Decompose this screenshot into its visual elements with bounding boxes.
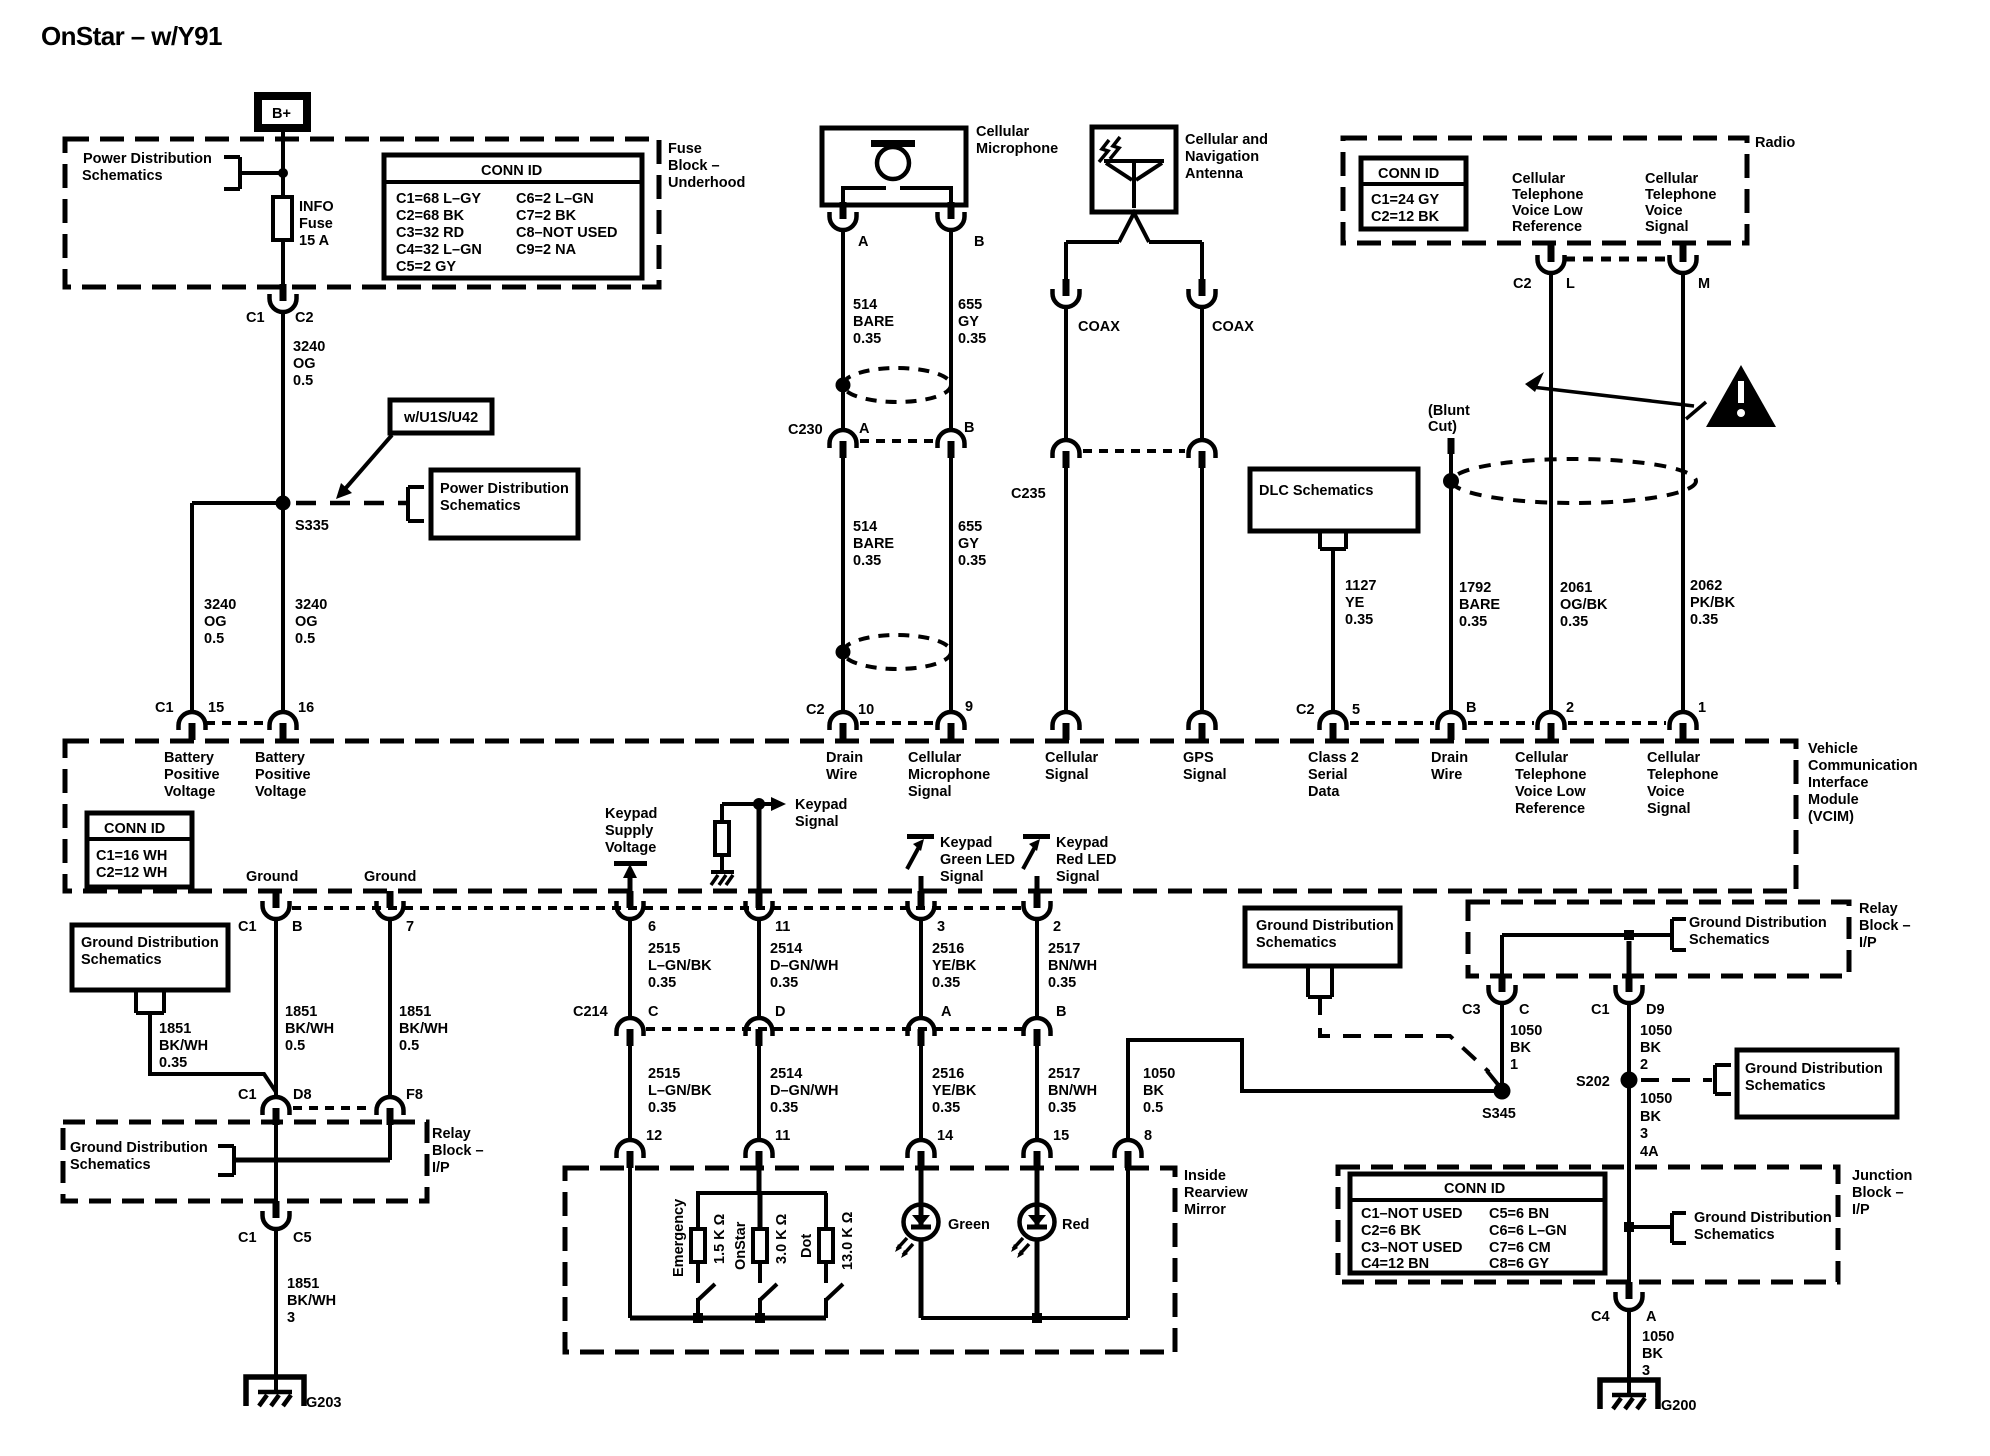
connector C214 A (908, 1004, 953, 1046)
shield ellipse (radio) (1452, 459, 1696, 503)
svg-text:Positive: Positive (255, 767, 311, 783)
svg-text:11: 11 (775, 919, 790, 935)
svg-text:Ground Distribution: Ground Distribution (1689, 915, 1827, 931)
svg-text:15: 15 (1053, 1128, 1069, 1144)
svg-text:1851: 1851 (159, 1021, 191, 1037)
svg-text:COAX: COAX (1078, 319, 1120, 335)
svg-text:Power Distribution: Power Distribution (83, 151, 212, 167)
svg-text:16: 16 (298, 700, 314, 716)
wire dashed link VCIM bottom row (292, 906, 1022, 910)
connector M (radio C2) (1670, 245, 1711, 292)
svg-text:BK/WH: BK/WH (287, 1293, 336, 1309)
connector GPS signal (VCIM) (1189, 712, 1216, 740)
connector mirror pin 11 (746, 1128, 791, 1168)
svg-text:Ground Distribution: Ground Distribution (1745, 1061, 1883, 1077)
svg-text:3: 3 (1640, 1126, 1648, 1142)
svg-text:13.0 K Ω: 13.0 K Ω (840, 1211, 856, 1270)
label 1851 BK/WH 0.5 (right) (399, 1004, 448, 1054)
label inside rearview mirror (1184, 1168, 1248, 1218)
connector pin 6 (VCIM bottom) (617, 891, 657, 935)
svg-text:Reference: Reference (1512, 219, 1582, 235)
svg-text:655: 655 (958, 519, 982, 535)
switch dot (826, 1284, 843, 1318)
label 1050 BK 3 4A (1640, 1091, 1672, 1160)
note ground distribution schematics (junction block) (1629, 1210, 1832, 1243)
svg-text:C214: C214 (573, 1004, 608, 1020)
svg-text:(Blunt: (Blunt (1428, 403, 1470, 419)
svg-text:1050: 1050 (1143, 1066, 1175, 1082)
svg-text:Red LED: Red LED (1056, 852, 1116, 868)
fuse block underhood box (65, 139, 659, 287)
svg-text:0.35: 0.35 (770, 975, 798, 991)
svg-text:C3: C3 (1462, 1002, 1481, 1018)
resistor dot 13.0 K (819, 1193, 833, 1283)
svg-text:C2: C2 (806, 702, 825, 718)
svg-text:B: B (974, 234, 984, 250)
svg-text:0.35: 0.35 (958, 553, 986, 569)
ground G203 (246, 1377, 341, 1411)
svg-text:3: 3 (937, 919, 945, 935)
svg-text:1851: 1851 (399, 1004, 431, 1020)
wire 655 GY upper (949, 230, 953, 430)
connector C214 C (573, 1004, 659, 1046)
label 1792 BARE 0.35 (1459, 580, 1500, 630)
connector pin 11 (VCIM bottom) (746, 891, 791, 935)
svg-text:Supply: Supply (605, 823, 653, 839)
svg-text:12: 12 (646, 1128, 662, 1144)
wire dashed link C230 (860, 439, 934, 443)
node relay bus junction (1624, 930, 1634, 940)
wire antenna V split (1066, 213, 1202, 242)
label 2517 BN/WH 0.35 (upper) (1048, 941, 1097, 991)
svg-text:C: C (648, 1004, 659, 1020)
svg-text:Signal: Signal (940, 869, 984, 885)
svg-text:2516: 2516 (932, 941, 964, 957)
svg-text:C1=24 GY: C1=24 GY (1371, 192, 1439, 208)
svg-text:0.35: 0.35 (853, 331, 881, 347)
svg-text:Signal: Signal (1183, 767, 1227, 783)
svg-text:0.5: 0.5 (1143, 1100, 1163, 1116)
label relay block I/P (left) (432, 1126, 484, 1176)
connector cellular signal (VCIM) (1053, 712, 1080, 740)
svg-text:Ground Distribution: Ground Distribution (1694, 1210, 1832, 1226)
svg-text:Microphone: Microphone (908, 767, 990, 783)
svg-text:C2=12 BK: C2=12 BK (1371, 209, 1440, 225)
svg-text:Schematics: Schematics (1694, 1227, 1775, 1243)
svg-text:CONN ID: CONN ID (1444, 1181, 1505, 1197)
svg-text:Voltage: Voltage (255, 784, 306, 800)
wire red LED to C214 (1035, 919, 1039, 1018)
svg-text:YE/BK: YE/BK (932, 1083, 977, 1099)
svg-text:0.35: 0.35 (1690, 612, 1718, 628)
svg-text:BN/WH: BN/WH (1048, 958, 1097, 974)
svg-text:0.35: 0.35 (958, 331, 986, 347)
node S345 splice (1482, 1083, 1516, 1123)
svg-text:C5=2 GY: C5=2 GY (396, 259, 456, 275)
svg-text:INFO: INFO (299, 199, 334, 215)
svg-text:Block –: Block – (432, 1143, 484, 1159)
wire dashed link C214 row (646, 1027, 1022, 1031)
svg-text:Microphone: Microphone (976, 141, 1058, 157)
radio box (1343, 138, 1747, 243)
svg-text:BARE: BARE (1459, 597, 1500, 613)
svg-text:6: 6 (648, 919, 656, 935)
node junction block tie (1624, 1222, 1634, 1232)
connector pin 1 (VCIM) (1670, 700, 1707, 740)
label 2514 D-GN/WH 0.35 (upper) (770, 941, 838, 991)
ground distribution schematics box (left) (72, 925, 228, 990)
svg-text:C5=6 BN: C5=6 BN (1489, 1206, 1549, 1222)
svg-text:Schematics: Schematics (1689, 932, 1770, 948)
svg-text:0.35: 0.35 (1459, 614, 1487, 630)
connector L (radio C2) (1513, 245, 1575, 292)
connector pin 7 (VCIM bottom) (377, 891, 415, 935)
svg-text:D: D (775, 1004, 785, 1020)
keypad signal net (722, 797, 786, 891)
svg-text:2517: 2517 (1048, 941, 1080, 957)
svg-text:Keypad: Keypad (605, 806, 657, 822)
connector C1 D9 (relay right) (1591, 975, 1665, 1018)
svg-text:BK: BK (1143, 1083, 1164, 1099)
wire coax right upper (1200, 242, 1204, 280)
svg-text:L–GN/BK: L–GN/BK (648, 958, 712, 974)
wire GPS signal to VCIM (1200, 468, 1204, 712)
svg-text:C1: C1 (238, 1087, 257, 1103)
svg-text:S345: S345 (1482, 1106, 1516, 1122)
svg-text:Telephone: Telephone (1512, 187, 1583, 203)
wire D9 drop (1627, 941, 1632, 976)
connector C3 C (relay right) (1462, 975, 1530, 1018)
label keypad supply voltage (605, 806, 657, 856)
note ground distribution schematics (S202) (1715, 1050, 1897, 1117)
label 1050 BK 3 (1642, 1329, 1674, 1379)
connector F8 (relay block) (377, 1087, 423, 1125)
svg-text:0.35: 0.35 (932, 1100, 960, 1116)
svg-text:DLC Schematics: DLC Schematics (1259, 483, 1373, 499)
wire 3240 OG 0.5 label (upper) (293, 339, 325, 389)
label class 2 serial data (1308, 750, 1359, 800)
svg-text:CONN ID: CONN ID (104, 821, 165, 837)
label blunt cut (1428, 403, 1470, 435)
svg-text:0.35: 0.35 (648, 975, 676, 991)
wire keypad supply to C214 (628, 919, 632, 1018)
wire middle bracket stem (1308, 966, 1332, 997)
svg-text:BK/WH: BK/WH (285, 1021, 334, 1037)
wire pin 7 to F8 (388, 919, 392, 1097)
LED red (1011, 1168, 1089, 1258)
label drain wire (pin10) (826, 750, 863, 783)
svg-text:GY: GY (958, 314, 979, 330)
connector C5 (relay to body) (238, 1201, 312, 1246)
label 2061 OG/BK 0.35 (1560, 580, 1608, 630)
wire pin B to D8 (274, 919, 278, 1097)
svg-text:OnStar – w/Y91: OnStar – w/Y91 (41, 21, 222, 51)
svg-text:Keypad: Keypad (795, 797, 847, 813)
svg-text:OG: OG (204, 614, 227, 630)
svg-text:A: A (858, 234, 869, 250)
svg-text:OnStar: OnStar (733, 1221, 749, 1270)
wire cellular signal to VCIM (1064, 468, 1068, 712)
svg-text:Ground Distribution: Ground Distribution (70, 1140, 208, 1156)
svg-text:3: 3 (1642, 1363, 1650, 1379)
svg-text:B: B (1466, 700, 1476, 716)
connector mic B (938, 202, 985, 250)
label 2516 YE/BK 0.35 (lower) (932, 1066, 977, 1116)
node shield drain tie (radio) (1443, 473, 1459, 489)
svg-text:2514: 2514 (770, 1066, 802, 1082)
wire keypad bottom bus (630, 1316, 826, 1321)
svg-text:Antenna: Antenna (1185, 166, 1244, 182)
note Power Distribution Schematics (S335) (408, 470, 578, 538)
wire 2061 OG/BK run (1549, 273, 1553, 712)
wire bracket to B+ feed (240, 171, 283, 175)
svg-text:GPS: GPS (1183, 750, 1214, 766)
keypad green LED signal terminal (907, 834, 934, 891)
svg-text:Ground: Ground (364, 869, 416, 885)
connector pin 10 (VCIM C2) (806, 702, 874, 740)
svg-text:Data: Data (1308, 784, 1340, 800)
connector mic A (830, 202, 870, 250)
DLC schematics tag box (1250, 469, 1418, 531)
wire pin12 into mirror (628, 1168, 632, 1318)
svg-text:Power Distribution: Power Distribution (440, 481, 569, 497)
svg-text:G200: G200 (1661, 1398, 1696, 1414)
label 1851 BK/WH 0.5 (left) (285, 1004, 334, 1054)
svg-text:COAX: COAX (1212, 319, 1254, 335)
svg-text:S202: S202 (1576, 1074, 1610, 1090)
svg-text:Red: Red (1062, 1217, 1089, 1233)
svg-text:Telephone: Telephone (1645, 187, 1716, 203)
label 3240 OG 0.5 (left) (204, 597, 236, 647)
svg-text:Drain: Drain (826, 750, 863, 766)
svg-text:514: 514 (853, 519, 877, 535)
svg-text:Signal: Signal (1645, 219, 1689, 235)
svg-text:Signal: Signal (908, 784, 952, 800)
svg-text:C7=2 BK: C7=2 BK (516, 208, 577, 224)
svg-text:Cellular: Cellular (1512, 171, 1566, 187)
switch onstar (760, 1284, 777, 1318)
svg-text:YE/BK: YE/BK (932, 958, 977, 974)
wire C214 B to mirror 15 (1035, 1046, 1039, 1140)
svg-text:Ground: Ground (246, 869, 298, 885)
svg-text:CONN ID: CONN ID (481, 163, 542, 179)
svg-text:Voice Low: Voice Low (1515, 784, 1586, 800)
svg-text:0.35: 0.35 (1048, 1100, 1076, 1116)
wire blunt cut stub (1448, 438, 1455, 454)
label VCIM (1808, 741, 1918, 825)
wire green LED to C214 (919, 919, 923, 1018)
svg-text:2: 2 (1640, 1057, 1648, 1073)
svg-text:2: 2 (1566, 700, 1574, 716)
label 1851 BK/WH 3 (287, 1276, 336, 1326)
connector pin 9 (VCIM C2) (938, 699, 974, 740)
connector C235 left (1011, 440, 1080, 502)
svg-text:S335: S335 (295, 518, 329, 534)
label Fuse Block Underhood (668, 141, 745, 191)
wire C214 A to mirror 14 (919, 1046, 923, 1140)
inside rearview mirror box (565, 1168, 1175, 1352)
wire 3240 OG left run (190, 503, 194, 712)
wire 3240 OG right run (281, 503, 285, 712)
svg-text:0.5: 0.5 (293, 373, 313, 389)
svg-text:B+: B+ (272, 106, 291, 122)
wire relay ground bus (right) (1502, 933, 1672, 937)
svg-text:C4: C4 (1591, 1309, 1610, 1325)
connector mirror pin 12 (617, 1128, 663, 1168)
svg-text:3240: 3240 (293, 339, 325, 355)
svg-text:Radio: Radio (1755, 135, 1795, 151)
wire C214 C to mirror 12 (628, 1046, 632, 1140)
node bus junction (onstar) (755, 1313, 765, 1323)
svg-text:C2=12 WH: C2=12 WH (96, 865, 167, 881)
connector C4 A (junction block) (1591, 1282, 1657, 1325)
svg-text:C8–NOT USED: C8–NOT USED (516, 225, 618, 241)
svg-text:I/P: I/P (1852, 1202, 1870, 1218)
svg-text:0.35: 0.35 (770, 1100, 798, 1116)
svg-text:Underhood: Underhood (668, 175, 745, 191)
svg-text:Ground Distribution: Ground Distribution (81, 935, 219, 951)
svg-text:Signal: Signal (1647, 801, 1691, 817)
svg-text:C1=16 WH: C1=16 WH (96, 848, 167, 864)
svg-text:BARE: BARE (853, 536, 894, 552)
label keypad red LED signal (1056, 835, 1116, 885)
CONN ID table (fuse block) (384, 155, 642, 278)
svg-text:1050: 1050 (1640, 1091, 1672, 1107)
svg-text:Fuse: Fuse (668, 141, 702, 157)
svg-text:C: C (1519, 1002, 1530, 1018)
svg-text:3: 3 (287, 1310, 295, 1326)
label cellular signal (1045, 750, 1099, 783)
svg-text:CONN ID: CONN ID (1378, 166, 1439, 182)
wire junction to C4 (1627, 1227, 1631, 1282)
label relay block I/P (right) (1859, 901, 1911, 951)
svg-text:D9: D9 (1646, 1002, 1665, 1018)
VCIM module box (65, 741, 1796, 891)
wire dashed link D8-F8 (293, 1106, 373, 1110)
svg-text:Cellular: Cellular (976, 124, 1030, 140)
svg-text:Inside: Inside (1184, 1168, 1226, 1184)
svg-text:Wire: Wire (1431, 767, 1462, 783)
svg-text:1050: 1050 (1642, 1329, 1674, 1345)
shield ellipse (mic upper) (843, 368, 951, 402)
svg-text:0.5: 0.5 (295, 631, 315, 647)
wire C3 drop (1500, 935, 1504, 976)
svg-text:1851: 1851 (285, 1004, 317, 1020)
svg-text:2: 2 (1053, 919, 1061, 935)
svg-text:C8=6 GY: C8=6 GY (1489, 1256, 1549, 1272)
ground distribution schematics box (middle) (1245, 908, 1400, 966)
svg-text:Telephone: Telephone (1515, 767, 1586, 783)
svg-text:Communication: Communication (1808, 758, 1918, 774)
svg-text:Green LED: Green LED (940, 852, 1015, 868)
LED green (895, 1168, 990, 1258)
node junction on B+ feed (278, 168, 288, 178)
wire coax left lower (1064, 307, 1068, 439)
label GPS signal (1183, 750, 1227, 783)
svg-text:8: 8 (1144, 1128, 1152, 1144)
label 2062 PK/BK 0.35 (1690, 578, 1736, 628)
svg-text:0.5: 0.5 (204, 631, 224, 647)
svg-text:Cellular: Cellular (1647, 750, 1701, 766)
svg-text:C1: C1 (246, 310, 265, 326)
svg-text:Junction: Junction (1852, 1168, 1912, 1184)
wire D9 to S202 (1627, 1003, 1631, 1080)
svg-text:15: 15 (208, 700, 224, 716)
svg-text:Rearview: Rearview (1184, 1185, 1248, 1201)
svg-text:0.35: 0.35 (648, 1100, 676, 1116)
wire dashed reference to S345 (1320, 997, 1500, 1087)
wire C5 to G203 (274, 1229, 278, 1393)
svg-text:Battery: Battery (255, 750, 305, 766)
cellular microphone box (822, 124, 1058, 205)
arrow from w/U1S/U42 to S335 (336, 435, 392, 499)
svg-text:Schematics: Schematics (82, 168, 163, 184)
svg-text:PK/BK: PK/BK (1690, 595, 1736, 611)
CONN ID table (radio) (1361, 158, 1466, 229)
svg-text:Reference: Reference (1515, 801, 1585, 817)
svg-text:C230: C230 (788, 422, 823, 438)
svg-text:A: A (1646, 1309, 1657, 1325)
svg-text:C3–NOT USED: C3–NOT USED (1361, 1240, 1463, 1256)
svg-text:Relay: Relay (432, 1126, 471, 1142)
svg-text:GY: GY (958, 536, 979, 552)
svg-text:Navigation: Navigation (1185, 149, 1259, 165)
note ground distribution schematics (right relay) (1672, 915, 1827, 950)
svg-text:L: L (1566, 276, 1575, 292)
wire F8 stub in relay (388, 1125, 392, 1160)
svg-text:OG/BK: OG/BK (1560, 597, 1608, 613)
svg-text:Mirror: Mirror (1184, 1202, 1226, 1218)
connector mirror pin 14 (908, 1128, 954, 1168)
label 1127 YE 0.35 (1345, 578, 1376, 628)
wire B+ to fuse (281, 132, 285, 197)
svg-text:Fuse: Fuse (299, 216, 333, 232)
relay block I/P box (right) (1468, 902, 1849, 976)
connector pin 2 (VCIM) (1538, 700, 1575, 740)
wire 514 BARE lower (841, 458, 845, 712)
wire C to S345 (1500, 1003, 1504, 1091)
label cellular telephone voice signal (radio) (1645, 171, 1716, 235)
svg-text:Wire: Wire (826, 767, 857, 783)
svg-text:F8: F8 (406, 1087, 423, 1103)
wire DLC bracket stem (1320, 531, 1346, 712)
label battery positive voltage (pin16) (255, 750, 311, 800)
switch emergency (698, 1284, 715, 1318)
label cellular telephone voice low reference (radio) (1512, 171, 1583, 235)
svg-text:9: 9 (965, 699, 973, 715)
resistor pull-down (keypad signal) (715, 804, 729, 872)
connector C235 right (1189, 440, 1216, 468)
svg-text:3240: 3240 (295, 597, 327, 613)
wire dashed link 5-B-2-1 (1350, 721, 1666, 725)
svg-text:C235: C235 (1011, 486, 1046, 502)
connector pin 5 (VCIM C2) (1296, 702, 1360, 740)
wire red LED cathode down (1035, 1239, 1040, 1318)
wire LED return bus (921, 1316, 1128, 1320)
svg-text:C2=6 BK: C2=6 BK (1361, 1223, 1422, 1239)
connector D8 (relay block) (238, 1087, 312, 1125)
svg-text:1127: 1127 (1345, 578, 1376, 594)
svg-text:C1–NOT USED: C1–NOT USED (1361, 1206, 1463, 1222)
label 2515 L-GN/BK 0.35 (upper) (648, 941, 712, 991)
label battery positive voltage (pin15) (164, 750, 220, 800)
svg-text:Schematics: Schematics (81, 952, 162, 968)
svg-text:Schematics: Schematics (1256, 935, 1337, 951)
label 2517 BN/WH 0.35 (lower) (1048, 1066, 1097, 1116)
connector C1/C2 (fuse block output) (246, 284, 314, 326)
svg-text:Schematics: Schematics (440, 498, 521, 514)
svg-text:3.0 K Ω: 3.0 K Ω (774, 1213, 790, 1264)
